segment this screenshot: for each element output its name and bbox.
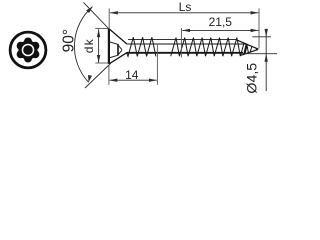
svg-text:90°: 90° (60, 29, 77, 52)
14 arrows (110, 79, 118, 82)
shaft crest line (128, 39, 237, 41)
90 degree angle extension top (84, 2, 110, 29)
14 right extension (156, 44, 158, 85)
dk arrows (97, 29, 100, 37)
dk top extension (95, 28, 109, 30)
torx recess profile (110, 42, 122, 58)
left thread group zigzag (127, 37, 156, 56)
Ls arrows (110, 11, 118, 14)
dimension 14 line (110, 79, 157, 81)
21,5 arrows (182, 29, 190, 32)
tip bottom edge (240, 49, 258, 55)
tip top edge (237, 40, 259, 49)
diameter arrows (265, 29, 268, 37)
thick thread at tip (244, 38, 248, 57)
arc arrow bottom (88, 75, 92, 82)
svg-text:Ø4,5: Ø4,5 (244, 63, 260, 94)
dimension 21,5 line (182, 29, 258, 31)
torx drive icon (10, 32, 46, 68)
90 degree angle extension bottom (85, 64, 111, 89)
screw head cone top edge (109, 29, 126, 44)
14 left extension (108, 65, 110, 85)
dimension Ls line (110, 12, 258, 14)
dk bottom extension (95, 62, 109, 64)
screw head cone bottom edge (109, 53, 126, 64)
shaft bottom thick line (126, 52, 243, 54)
90 degree arc (74, 7, 92, 83)
svg-text:21,5: 21,5 (209, 15, 233, 29)
screw head face (108, 29, 110, 64)
Ls left extension (108, 8, 110, 28)
svg-text:Ls: Ls (179, 0, 192, 14)
dimension dk line (98, 29, 100, 63)
right extension at tip (258, 8, 260, 48)
21,5 left extension (180, 28, 182, 58)
svg-text:dk: dk (82, 38, 96, 53)
diameter dimension line (265, 29, 267, 91)
diameter top extension (252, 36, 271, 38)
right thread group zigzag (171, 38, 258, 57)
svg-text:14: 14 (125, 68, 139, 82)
arc arrow top (86, 7, 92, 13)
shaft core top line (126, 43, 246, 45)
diameter bottom extension (243, 53, 277, 55)
